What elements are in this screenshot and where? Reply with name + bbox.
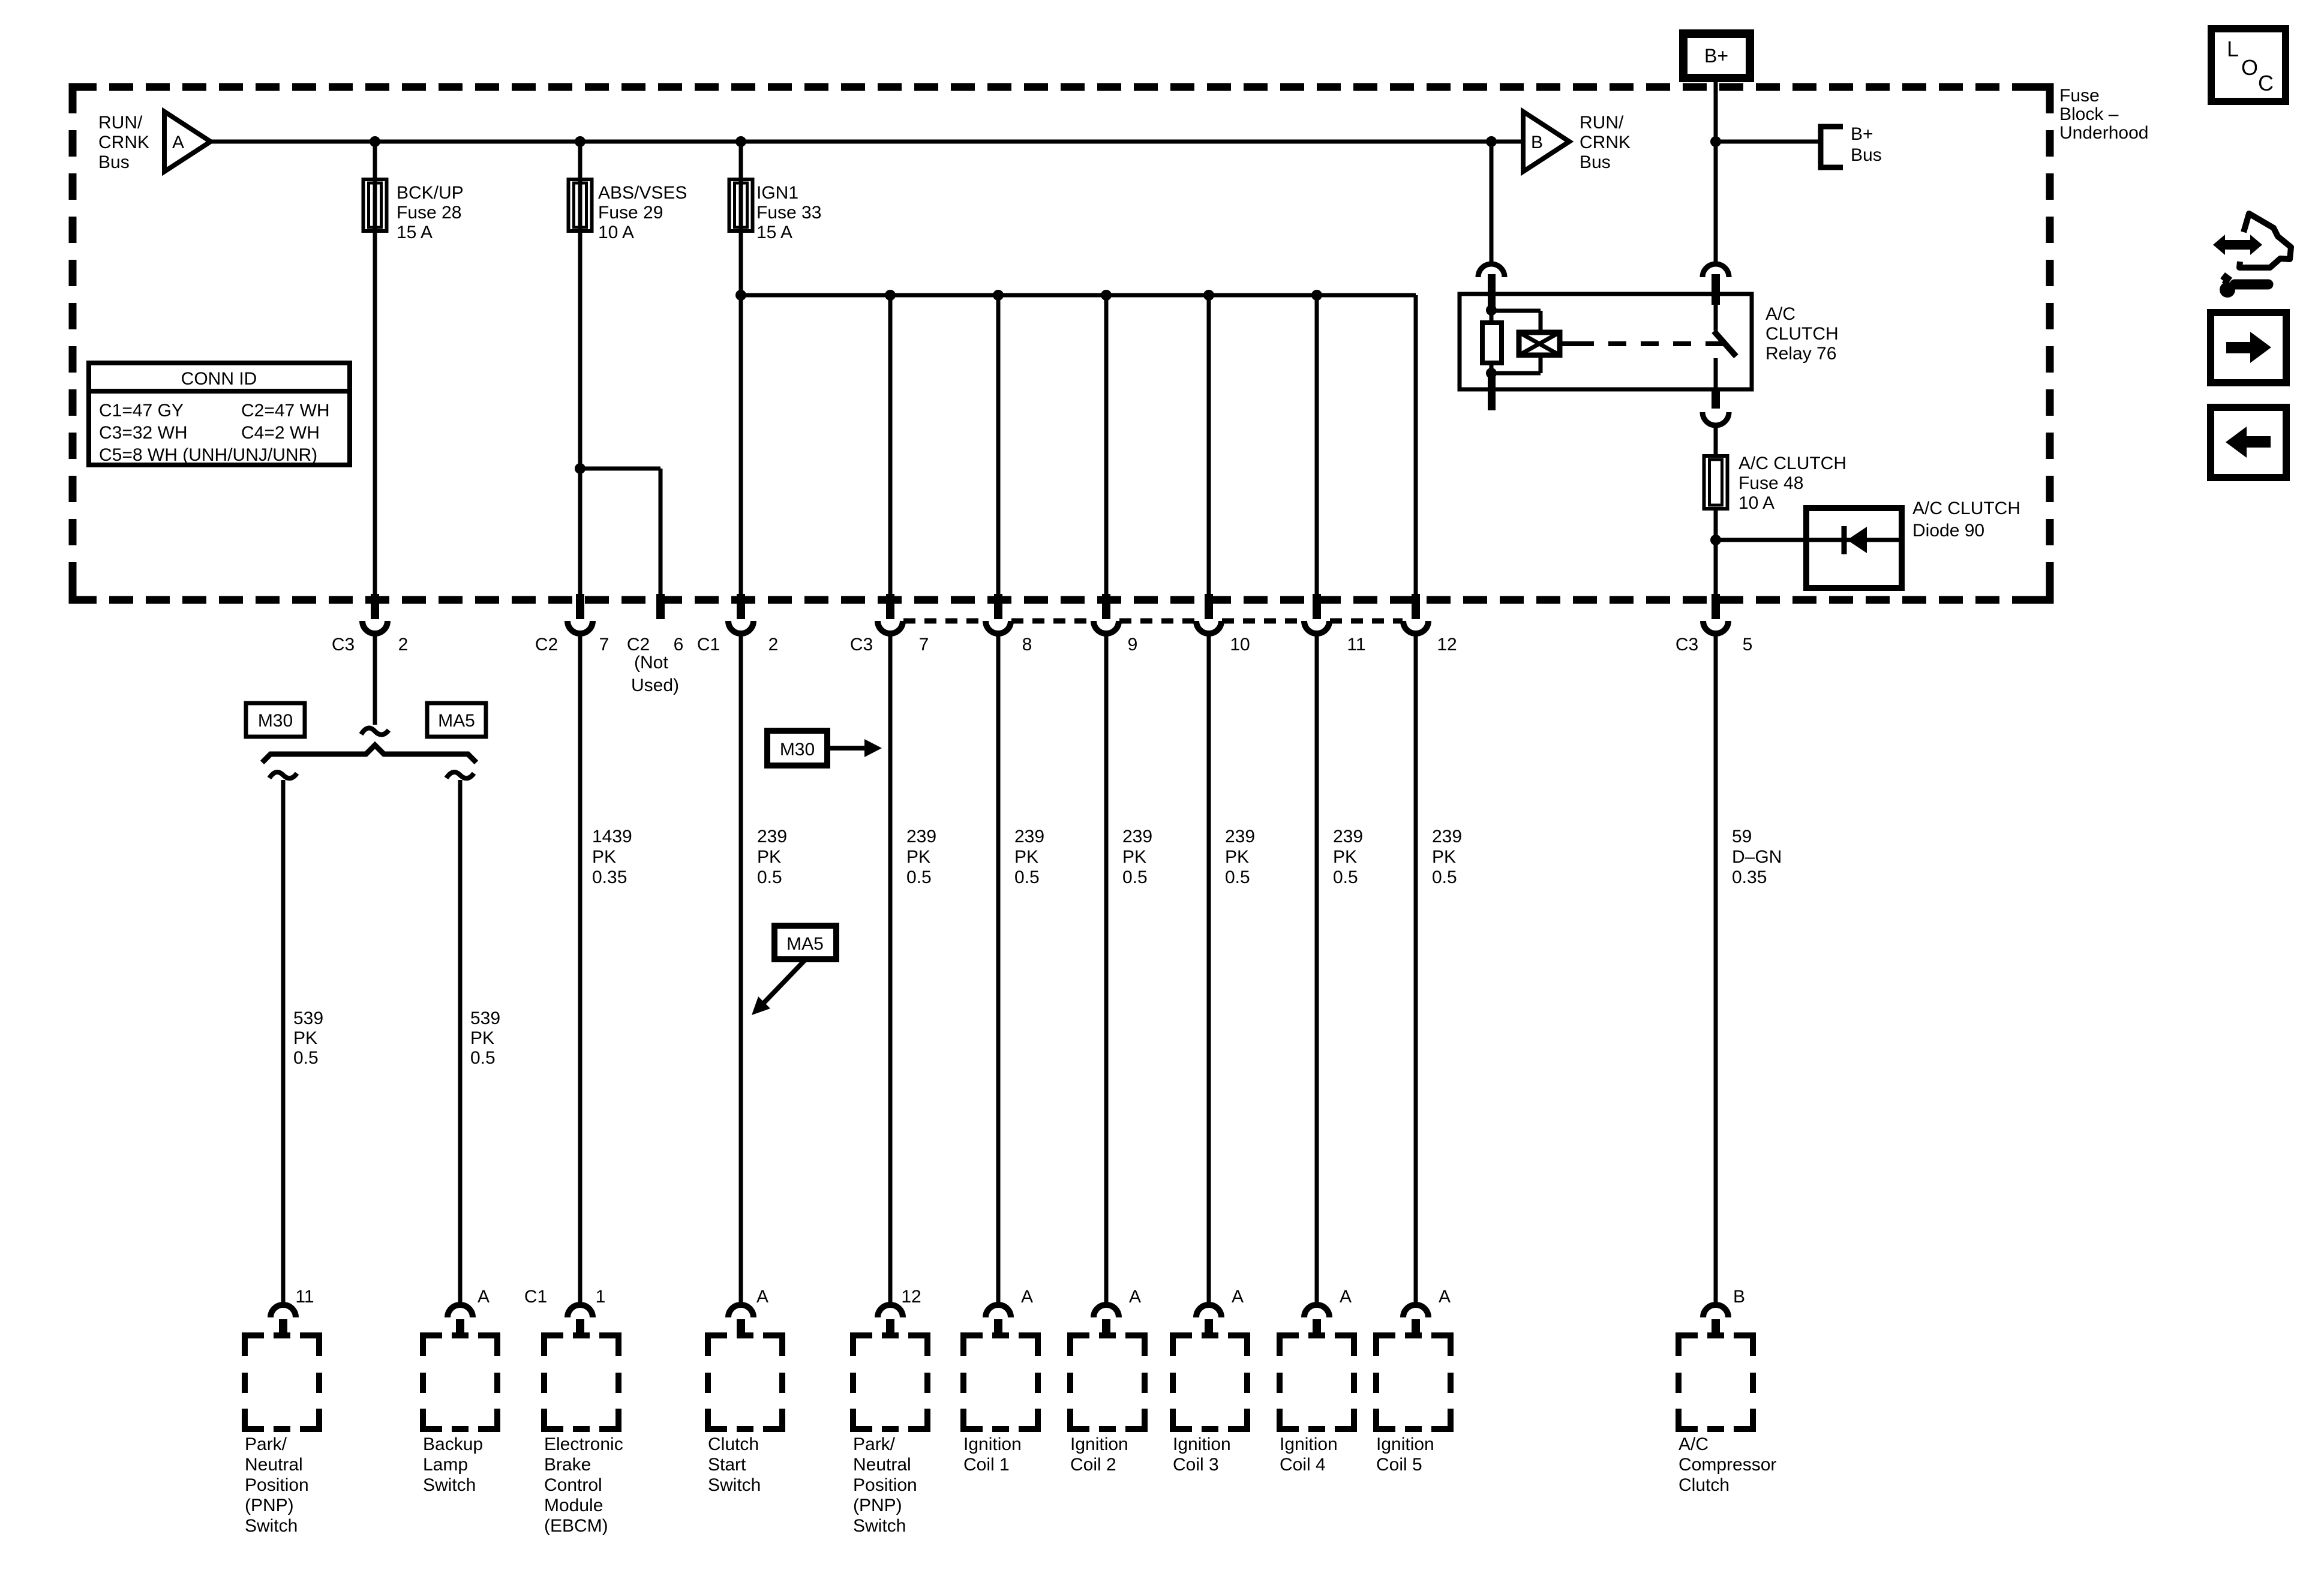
- svg-text:Position: Position: [853, 1475, 917, 1495]
- fuse block border top: [73, 83, 2050, 91]
- svg-text:0.5: 0.5: [1122, 867, 1148, 887]
- relay switch contact: [1714, 305, 1718, 331]
- svg-text:CRNK: CRNK: [98, 133, 149, 152]
- svg-text:C2=47 WH: C2=47 WH: [241, 401, 330, 421]
- relay coil junction top: [1486, 305, 1497, 316]
- svg-text:O: O: [2241, 55, 2258, 80]
- svg-text:0.5: 0.5: [757, 867, 782, 887]
- svg-text:A/C: A/C: [1679, 1434, 1709, 1454]
- junction ignition rail: [735, 290, 746, 301]
- svg-text:Ignition: Ignition: [963, 1434, 1022, 1454]
- relay switch blade: [1714, 331, 1736, 356]
- svg-text:C2: C2: [627, 635, 650, 655]
- svg-text:CLUTCH: CLUTCH: [1765, 324, 1839, 344]
- fuse block border corners: [73, 87, 2050, 600]
- svg-text:12: 12: [901, 1287, 921, 1307]
- relay coil junction bottom: [1486, 368, 1497, 379]
- svg-text:Bus: Bus: [1851, 145, 1882, 165]
- svg-text:Fuse 28: Fuse 28: [397, 203, 461, 223]
- wire drop to component x=2860: [1714, 634, 1718, 1304]
- double arrow: [2213, 235, 2262, 255]
- junction B+ bus: [1710, 136, 1721, 147]
- svg-text:BCK/UP: BCK/UP: [397, 183, 464, 203]
- svg-text:Fuse: Fuse: [2059, 86, 2100, 106]
- connector C3-9 at fuse block: [1102, 594, 1110, 619]
- connector C3-5 at fuse block: [1712, 594, 1720, 619]
- svg-text:9: 9: [1128, 635, 1138, 655]
- svg-text:PK: PK: [1014, 847, 1038, 867]
- wire from B+ down: [1714, 78, 1718, 265]
- svg-text:C1: C1: [697, 635, 720, 655]
- wire bus to ABS/VSES fuse: [578, 142, 582, 594]
- svg-text:A: A: [478, 1287, 490, 1307]
- stub C2 pin 6 (not used): [656, 594, 665, 619]
- svg-text:C2: C2: [535, 635, 558, 655]
- relay coil lower stub: [1488, 373, 1496, 410]
- wire drop to component x=1235: [739, 634, 743, 1304]
- svg-text:Switch: Switch: [708, 1475, 761, 1495]
- svg-text:10 A: 10 A: [1739, 493, 1774, 513]
- splice brace: [262, 745, 476, 763]
- svg-text:Neutral: Neutral: [853, 1455, 911, 1475]
- svg-text:C3: C3: [332, 635, 355, 655]
- wire drop to component x=1664: [996, 634, 1001, 1304]
- svg-text:Relay 76: Relay 76: [1765, 344, 1836, 364]
- junction fuse 29: [575, 136, 585, 147]
- connector pin A of component at x=2360: [1403, 1305, 1428, 1317]
- connector C3-11 at fuse block: [1313, 594, 1321, 619]
- svg-text:PK: PK: [1225, 847, 1249, 867]
- wire RUN/CRNK bus: [211, 140, 1523, 144]
- connector pin A of component at x=767: [448, 1305, 473, 1317]
- svg-text:6: 6: [674, 635, 684, 655]
- fuse F29 ABS/VSES 10A: [569, 179, 592, 231]
- svg-text:Control: Control: [544, 1475, 602, 1495]
- svg-text:0.5: 0.5: [1333, 867, 1358, 887]
- wire solenoid to linkage: [1560, 341, 1576, 346]
- component box Clutch Switch: [708, 1335, 782, 1429]
- wire fuse 48 to diode junction: [1714, 511, 1718, 600]
- wire to B+ Bus bracket: [1716, 140, 1821, 144]
- svg-text:C1=47 GY: C1=47 GY: [99, 401, 184, 421]
- wire bus to relay coil: [1490, 142, 1494, 265]
- svg-text:A: A: [1340, 1287, 1352, 1307]
- svg-text:ABS/VSES: ABS/VSES: [598, 183, 687, 203]
- off-page connector B (RUN/CRNK Bus): [1523, 112, 1569, 172]
- svg-text:D–GN: D–GN: [1732, 847, 1782, 867]
- junction rail x=1844: [1101, 290, 1112, 301]
- svg-text:L: L: [2227, 37, 2239, 61]
- wire rail drop x=1484: [888, 295, 893, 594]
- svg-text:Coil 4: Coil 4: [1280, 1455, 1326, 1475]
- svg-text:C1: C1: [524, 1287, 547, 1307]
- junction rail x=2015: [1203, 290, 1214, 301]
- svg-text:239: 239: [1333, 827, 1363, 846]
- svg-text:Switch: Switch: [245, 1516, 298, 1536]
- connector pin B of component at x=2860: [1703, 1305, 1728, 1317]
- svg-text:Used): Used): [631, 676, 679, 695]
- svg-text:Switch: Switch: [853, 1516, 906, 1536]
- svg-text:0.5: 0.5: [1225, 867, 1250, 887]
- splice squiggle left: [269, 772, 297, 778]
- wire solenoid loop: [1491, 309, 1541, 313]
- component box Ignition Coil 2: [1070, 1335, 1145, 1429]
- svg-text:239: 239: [1014, 827, 1044, 846]
- svg-text:59: 59: [1732, 827, 1752, 846]
- svg-text:PK: PK: [470, 1028, 494, 1048]
- svg-text:539: 539: [293, 1008, 323, 1028]
- wire ignition feed rail: [741, 293, 1416, 298]
- connector C3-10 at fuse block: [1205, 594, 1213, 619]
- svg-text:C4=2 WH: C4=2 WH: [241, 423, 320, 443]
- svg-text:1439: 1439: [592, 827, 632, 846]
- svg-text:Ignition: Ignition: [1070, 1434, 1128, 1454]
- junction fuse 28: [370, 136, 380, 147]
- component box Electronic (EBCM): [544, 1335, 618, 1429]
- component box Backup Switch: [423, 1335, 497, 1429]
- svg-text:A/C: A/C: [1765, 304, 1795, 324]
- component box Ignition Coil 5: [1376, 1335, 1451, 1429]
- svg-text:Coil 1: Coil 1: [963, 1455, 1010, 1475]
- svg-text:0.5: 0.5: [906, 867, 932, 887]
- svg-text:0.5: 0.5: [470, 1048, 496, 1068]
- back arrow icon: [2211, 407, 2286, 478]
- diode symbol: [1842, 526, 1847, 554]
- wire 539 PK to backup lamp switch: [458, 780, 463, 1304]
- wire bus to IGN1 fuse: [739, 142, 743, 594]
- solenoid valve symbol: [1519, 332, 1560, 355]
- junction diode branch: [1710, 535, 1721, 545]
- svg-text:0.5: 0.5: [1432, 867, 1457, 887]
- connector C3-12 at fuse block: [1412, 594, 1420, 619]
- relay linkage (dashed): [1576, 341, 1725, 346]
- connector C1-2 at fuse block: [737, 594, 745, 619]
- svg-text:239: 239: [757, 827, 787, 846]
- svg-text:PK: PK: [1333, 847, 1357, 867]
- junction C2-6 branch: [575, 463, 585, 474]
- svg-text:15 A: 15 A: [397, 223, 433, 242]
- connector pin 11 of component at x=472: [271, 1305, 296, 1317]
- CONN ID table: [89, 363, 350, 465]
- svg-text:Compressor: Compressor: [1679, 1455, 1776, 1475]
- relay output stub: [1712, 389, 1720, 409]
- svg-text:PK: PK: [293, 1028, 317, 1048]
- svg-text:10 A: 10 A: [598, 223, 634, 242]
- wire bus to BCK/UP fuse: [373, 142, 377, 594]
- svg-text:(Not: (Not: [634, 653, 668, 673]
- svg-text:239: 239: [1225, 827, 1255, 846]
- svg-text:11: 11: [295, 1287, 314, 1307]
- wire 539 PK to PNP switch: [281, 780, 286, 1304]
- svg-text:Fuse 48: Fuse 48: [1739, 473, 1803, 493]
- connector pin A of component at x=2015: [1196, 1305, 1221, 1317]
- svg-text:A/C CLUTCH: A/C CLUTCH: [1912, 499, 2020, 518]
- svg-text:C3: C3: [1676, 635, 1698, 655]
- svg-text:C3=32 WH: C3=32 WH: [99, 423, 188, 443]
- svg-text:(PNP): (PNP): [245, 1496, 294, 1515]
- svg-text:Fuse 29: Fuse 29: [598, 203, 663, 223]
- svg-text:B+: B+: [1704, 45, 1728, 67]
- svg-text:MA5: MA5: [438, 711, 475, 731]
- svg-text:C: C: [2258, 71, 2274, 95]
- wire rail drop x=2015: [1207, 295, 1211, 594]
- splice tag M30: [246, 703, 305, 737]
- component box A/C Clutch: [1679, 1335, 1753, 1429]
- wire relay to fuse 48: [1714, 425, 1718, 454]
- splice squiggle right: [446, 772, 474, 778]
- svg-text:Coil 3: Coil 3: [1173, 1455, 1219, 1475]
- component box Park/ Switch: [245, 1335, 319, 1429]
- fuse block border bottom: [73, 596, 2050, 604]
- diode D90 box: [1806, 508, 1902, 588]
- svg-text:B: B: [1733, 1287, 1745, 1307]
- splice tag MA5: [427, 703, 486, 737]
- connector C3 ganged dashes: [903, 619, 1403, 624]
- wire drop to component x=2360: [1414, 634, 1418, 1304]
- wrench: [2235, 280, 2268, 290]
- svg-text:A: A: [1129, 1287, 1141, 1307]
- svg-text:0.5: 0.5: [293, 1048, 319, 1068]
- svg-text:Switch: Switch: [423, 1475, 476, 1495]
- flag M30 with arrow: [767, 731, 827, 766]
- svg-text:2: 2: [768, 635, 779, 655]
- svg-text:C5=8 WH (UNH/UNJ/UNR): C5=8 WH (UNH/UNJ/UNR): [99, 445, 317, 465]
- svg-text:Coil 5: Coil 5: [1376, 1455, 1422, 1475]
- svg-text:RUN/: RUN/: [1580, 113, 1624, 133]
- svg-text:11: 11: [1347, 635, 1365, 655]
- svg-text:CONN ID: CONN ID: [181, 369, 257, 389]
- wire drop to component x=2015: [1207, 634, 1211, 1304]
- connector C3-2 at fuse block: [371, 594, 379, 619]
- svg-text:PK: PK: [1432, 847, 1456, 867]
- svg-text:Underhood: Underhood: [2059, 123, 2148, 143]
- component box Ignition Coil 3: [1173, 1335, 1247, 1429]
- svg-text:A: A: [1021, 1287, 1033, 1307]
- svg-text:Ignition: Ignition: [1280, 1434, 1338, 1454]
- svg-text:(EBCM): (EBCM): [544, 1516, 608, 1536]
- connector pin A of component at x=1664: [986, 1305, 1011, 1317]
- wire drop to component x=2195: [1315, 634, 1319, 1304]
- wire drop to component x=1844: [1104, 634, 1109, 1304]
- relay K76 A/C CLUTCH box: [1460, 294, 1752, 389]
- wire rail drop x=1844: [1104, 295, 1109, 594]
- resistor (relay coil): [1490, 310, 1494, 323]
- svg-text:Clutch: Clutch: [1679, 1475, 1730, 1495]
- svg-text:Start: Start: [708, 1455, 746, 1475]
- svg-text:PK: PK: [757, 847, 781, 867]
- svg-text:Position: Position: [245, 1475, 309, 1495]
- svg-text:PK: PK: [906, 847, 930, 867]
- svg-text:M30: M30: [780, 740, 815, 760]
- svg-text:A: A: [1439, 1287, 1451, 1307]
- wire solenoid loop bottom: [1539, 355, 1543, 373]
- svg-text:A: A: [1232, 1287, 1244, 1307]
- connector pin A of component at x=1844: [1094, 1305, 1119, 1317]
- connector C2-7 at fuse block: [576, 594, 584, 619]
- svg-text:0.35: 0.35: [1732, 867, 1767, 887]
- svg-text:(PNP): (PNP): [853, 1496, 902, 1515]
- component box Park/ Switch: [853, 1335, 927, 1429]
- svg-text:Ignition: Ignition: [1173, 1434, 1231, 1454]
- svg-text:Park/: Park/: [245, 1434, 287, 1454]
- svg-text:MA5: MA5: [786, 934, 824, 954]
- svg-text:PK: PK: [1122, 847, 1146, 867]
- svg-text:Electronic: Electronic: [544, 1434, 623, 1454]
- svg-text:12: 12: [1437, 635, 1457, 655]
- junction rail x=1664: [993, 290, 1004, 301]
- off-page connector A (RUN/CRNK Bus): [164, 112, 211, 172]
- svg-text:Brake: Brake: [544, 1455, 591, 1475]
- svg-text:Fuse 33: Fuse 33: [756, 203, 821, 223]
- wire C3-2 to splice: [373, 634, 377, 725]
- wire rail drop x=1664: [996, 295, 1001, 594]
- svg-text:Clutch: Clutch: [708, 1434, 759, 1454]
- svg-text:Neutral: Neutral: [245, 1455, 303, 1475]
- forward arrow icon: [2211, 313, 2286, 383]
- wire drop to component x=1484: [888, 634, 893, 1304]
- connector cup relay output: [1703, 412, 1729, 425]
- svg-text:2: 2: [398, 635, 409, 655]
- B+ power symbol: [1683, 34, 1750, 78]
- fuse F33 IGN1 15A: [729, 179, 753, 231]
- svg-text:Coil 2: Coil 2: [1070, 1455, 1116, 1475]
- fuse F48 A/C CLUTCH 10A: [1704, 456, 1728, 509]
- svg-text:Diode 90: Diode 90: [1912, 521, 1984, 541]
- junction rail x=2195: [1311, 290, 1322, 301]
- svg-text:10: 10: [1230, 635, 1250, 655]
- wire drop to component x=967: [578, 634, 582, 1304]
- svg-text:A: A: [756, 1287, 768, 1307]
- svg-text:Module: Module: [544, 1496, 603, 1515]
- connector pin A of component at x=1235: [728, 1305, 753, 1317]
- junction relay coil feed: [1486, 136, 1497, 147]
- svg-text:Backup: Backup: [423, 1434, 483, 1454]
- svg-text:RUN/: RUN/: [98, 113, 143, 133]
- fuse F28 BCK/UP 15A: [364, 179, 387, 231]
- junction fuse 33: [735, 136, 746, 147]
- connector pin A of component at x=2195: [1304, 1305, 1329, 1317]
- wire branch to C2 pin 6: [580, 467, 660, 471]
- svg-text:239: 239: [1122, 827, 1152, 846]
- splice squiggle top: [361, 728, 389, 735]
- svg-text:1: 1: [596, 1287, 606, 1307]
- svg-text:8: 8: [1022, 635, 1032, 655]
- svg-text:A: A: [172, 133, 184, 152]
- svg-text:B: B: [1531, 133, 1543, 152]
- svg-text:M30: M30: [258, 711, 293, 731]
- svg-text:0.5: 0.5: [1014, 867, 1040, 887]
- svg-text:15 A: 15 A: [756, 223, 792, 242]
- svg-text:Lamp: Lamp: [423, 1455, 468, 1475]
- svg-text:Bus: Bus: [98, 152, 130, 172]
- connector pin 1 of component at x=967: [568, 1305, 593, 1317]
- svg-text:B+: B+: [1851, 124, 1873, 144]
- svg-text:CRNK: CRNK: [1580, 133, 1631, 152]
- svg-text:0.35: 0.35: [592, 867, 627, 887]
- fuse block border left: [69, 87, 77, 600]
- svg-text:Park/: Park/: [853, 1434, 896, 1454]
- svg-text:239: 239: [906, 827, 936, 846]
- svg-text:A/C CLUTCH: A/C CLUTCH: [1739, 454, 1846, 473]
- svg-text:5: 5: [1743, 635, 1753, 655]
- component box Ignition Coil 1: [963, 1335, 1038, 1429]
- svg-text:Block –: Block –: [2059, 104, 2119, 124]
- fuse block border right: [2046, 87, 2054, 600]
- connector arc relay coil pin: [1478, 264, 1505, 277]
- vehicle diagnostic icon: [2239, 214, 2291, 268]
- connector arc relay switch pin: [1703, 264, 1729, 277]
- wire to diode: [1716, 538, 1902, 542]
- B+ Bus connector bracket: [1821, 127, 1843, 167]
- svg-text:Ignition: Ignition: [1376, 1434, 1434, 1454]
- svg-text:PK: PK: [592, 847, 616, 867]
- svg-text:239: 239: [1432, 827, 1462, 846]
- svg-text:Bus: Bus: [1580, 152, 1611, 172]
- svg-text:7: 7: [919, 635, 929, 655]
- wire rail drop x=2360: [1414, 295, 1418, 594]
- svg-text:7: 7: [599, 635, 609, 655]
- connector pin 12 of component at x=1484: [878, 1305, 903, 1317]
- connector C3-7 at fuse block: [886, 594, 894, 619]
- component box Ignition Coil 4: [1280, 1335, 1354, 1429]
- svg-text:C3: C3: [850, 635, 873, 655]
- flag MA5 with arrow: [774, 926, 836, 959]
- svg-text:539: 539: [470, 1008, 500, 1028]
- LOC icon box: [2211, 29, 2286, 101]
- junction rail x=1484: [885, 290, 896, 301]
- svg-text:IGN1: IGN1: [756, 183, 798, 203]
- connector C3-8 at fuse block: [994, 594, 1002, 619]
- wire rail drop x=2195: [1315, 295, 1319, 594]
